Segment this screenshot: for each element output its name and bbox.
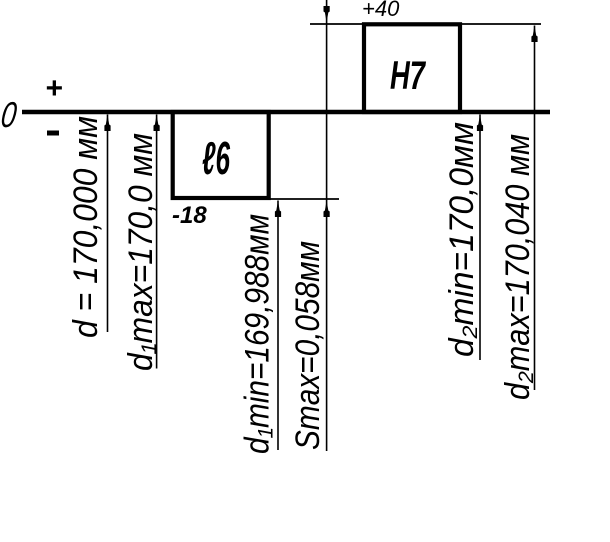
svg-text:H7: H7 xyxy=(390,54,426,98)
dimension line E: d2min xyxy=(479,115,481,361)
zero line xyxy=(22,110,550,115)
dimension line D: Smax xyxy=(326,0,328,451)
arrow A xyxy=(104,115,110,132)
svg-text:d₁max=170,0 мм: d₁max=170,0 мм xyxy=(122,133,160,371)
tolerance zone box H7 (hole) xyxy=(364,24,460,112)
svg-text:d₂max=170,040 мм: d₂max=170,040 мм xyxy=(499,134,537,400)
dimension line C: d1min xyxy=(277,201,279,451)
arrow F xyxy=(531,26,537,43)
tolerance zone box l6 (shaft) xyxy=(173,112,269,198)
dimension line A: d xyxy=(107,115,109,333)
svg-text:d = 170,000 мм: d = 170,000 мм xyxy=(67,116,105,338)
svg-text:+: + xyxy=(45,72,63,105)
svg-text:+40: +40 xyxy=(362,0,400,21)
svg-text:d₁min=169,988мм: d₁min=169,988мм xyxy=(239,214,277,454)
svg-text:Smax=0,058мм: Smax=0,058мм xyxy=(289,241,327,450)
dimension line F: d2max xyxy=(534,26,536,391)
+40 deviation extension line xyxy=(310,23,541,25)
arrow D top (down) xyxy=(324,6,330,23)
minus sign below zero line xyxy=(47,131,59,136)
arrow E xyxy=(477,115,483,132)
svg-text:-18: -18 xyxy=(172,202,207,229)
svg-text:ℓ6: ℓ6 xyxy=(202,132,230,184)
svg-text:d₂min=170,0мм: d₂min=170,0мм xyxy=(443,122,481,357)
arrow D bottom (up) xyxy=(324,201,330,218)
dimension line B: d1max xyxy=(156,115,158,369)
-18 deviation extension line xyxy=(268,198,339,200)
arrow C xyxy=(275,201,281,218)
arrow B xyxy=(154,115,160,132)
